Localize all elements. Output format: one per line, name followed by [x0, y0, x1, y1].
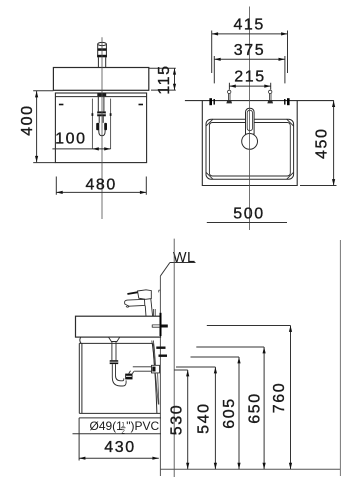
svg-text:")PVC: ")PVC [126, 419, 159, 433]
dimension 605 [238, 357, 240, 469]
basin outer rim (plan) [202, 101, 297, 186]
fixing bolt right (plan) [268, 90, 273, 103]
fixing bolt left (plan) [227, 90, 232, 103]
trap nut (side) [110, 360, 119, 364]
dimension 480 (bottom of front view) [56, 177, 146, 195]
centerline front view [101, 37, 103, 219]
leader 540 [176, 366, 215, 368]
leader 530 [174, 369, 188, 371]
svg-text:115: 115 [156, 64, 173, 94]
dimension 415 [212, 31, 288, 74]
faucet upper body [138, 290, 152, 300]
svg-text:650: 650 [247, 392, 264, 424]
dimension 450 (right) [300, 101, 337, 186]
faucet (plan) [246, 108, 255, 135]
trap downpipe [112, 364, 115, 377]
wall line (plan) [185, 100, 334, 102]
union nut on riser [125, 374, 132, 380]
basin mounting bolt (side) [152, 325, 160, 328]
faucet spout lip [126, 306, 129, 307]
centerline top view [249, 7, 251, 231]
wall bolt lower (side) [159, 355, 168, 357]
bottle trap U [99, 123, 105, 136]
dimension 100 (trap width) [52, 148, 110, 150]
dimension 430 [79, 457, 159, 459]
drain tailpiece [98, 97, 104, 112]
washbasin ceramic body (front) [53, 68, 148, 91]
bowl outer line [206, 119, 294, 179]
right frame line [339, 240, 341, 476]
faucet column [145, 299, 152, 317]
faucet (side): handle lever [127, 292, 138, 294]
faucet body (front) [98, 44, 107, 57]
trap tailpiece (side) [112, 342, 116, 361]
svg-text:530: 530 [169, 404, 186, 436]
drain flange under basin (side) [109, 337, 120, 341]
svg-text:540: 540 [196, 402, 213, 434]
svg-text:430: 430 [104, 439, 136, 456]
PVC label box [73, 418, 162, 461]
wall mounting thick section [160, 313, 162, 336]
cabinet handle left [59, 104, 64, 106]
faucet base band (front) [97, 55, 107, 58]
leader 760 [207, 325, 291, 327]
dimension 215 [229, 83, 270, 90]
svg-text:450: 450 [314, 127, 331, 159]
svg-text:215: 215 [234, 69, 266, 86]
svg-text:400: 400 [19, 104, 36, 136]
trap ears [96, 123, 99, 130]
svg-text:100: 100 [55, 131, 87, 148]
wall bolt upper (side) [156, 347, 165, 349]
cabinet (side) [79, 337, 160, 413]
svg-text:415: 415 [233, 17, 265, 34]
dimension 500 (bottom of top view, underlined) [207, 222, 287, 224]
dimension 115 (right of basin) [149, 68, 176, 90]
trap elbow to horizontal [112, 376, 126, 387]
floor baseline [160, 468, 340, 470]
dimension 400 (left) [33, 91, 55, 163]
svg-text:500: 500 [233, 205, 265, 222]
pipe below nut [99, 116, 103, 123]
cabinet handle right [139, 104, 144, 106]
drain flange at apron [97, 93, 106, 96]
leader 605 [191, 356, 240, 358]
cabinet top front hook [80, 337, 81, 343]
wall bracket right [284, 99, 285, 105]
pipe taper below flange [155, 373, 159, 404]
leader 650 [196, 346, 264, 348]
riser and top horizontal pipe to wall [129, 371, 134, 374]
cabinet (front) [55, 93, 146, 163]
svg-text:WL: WL [173, 250, 196, 266]
faucet risers [98, 57, 105, 67]
wall stub above basin [159, 290, 161, 292]
dimension 375 [214, 56, 285, 83]
supply pipe along wall [152, 341, 156, 366]
svg-text:2: 2 [121, 428, 125, 435]
supply extension lines [92, 99, 110, 149]
wall line (side) [159, 276, 161, 476]
faucet rear mount lines [154, 309, 156, 316]
drain hole (plan) [242, 134, 258, 150]
bowl inner line [209, 123, 290, 177]
trap nut [97, 111, 106, 116]
faucet handle band (front) [98, 48, 107, 51]
svg-text:760: 760 [271, 382, 288, 414]
faucet spout [125, 299, 145, 306]
svg-text:375: 375 [234, 42, 266, 59]
wall bracket left [209, 98, 212, 105]
svg-text:480: 480 [85, 177, 117, 194]
dimension 540 [214, 367, 216, 469]
bowl corner chamfers [206, 119, 294, 179]
dimension 650 [263, 347, 265, 469]
dimension 760 [290, 326, 292, 470]
WL underline and leader [160, 263, 195, 277]
secondary vertical line [173, 239, 175, 477]
svg-text:605: 605 [221, 397, 238, 429]
basin (side) [76, 316, 161, 337]
svg-text:Ø49(1: Ø49(1 [90, 419, 124, 433]
dimension 530 [187, 370, 189, 469]
wall outlet flange [152, 365, 160, 373]
